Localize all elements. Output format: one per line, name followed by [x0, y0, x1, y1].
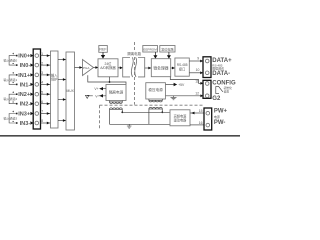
- input source symbol channel 3: [9, 114, 16, 124]
- svg-text:MUX: MUX: [67, 89, 75, 93]
- MCU box: [151, 59, 170, 77]
- analog rail: PGA/ADC bottom to isolated power: [88, 75, 126, 84]
- svg-text:DATA-: DATA-: [212, 71, 230, 77]
- IN labels: [18, 54, 31, 127]
- svg-text:3: 3: [41, 71, 43, 75]
- svg-text:PW-: PW-: [214, 120, 226, 126]
- wire ADC to isolation coupler: [118, 67, 123, 69]
- svg-text:IN2-: IN2-: [20, 102, 31, 108]
- right transformer primary winding: [149, 107, 162, 124]
- input terminal block (pins 1-8): [33, 49, 40, 129]
- svg-text:10: 10: [196, 68, 200, 72]
- svg-text:1: 1: [41, 52, 43, 56]
- bottom border rule: [0, 135, 240, 137]
- svg-text:A/D转换器: A/D转换器: [100, 65, 116, 70]
- ADC bottom stub: [109, 77, 111, 82]
- PW- wire from pin 16: [190, 124, 204, 126]
- EEPROM arrow to MCU: [154, 52, 156, 56]
- svg-text:V+: V+: [94, 87, 98, 91]
- svg-text:IN1+: IN1+: [18, 73, 31, 79]
- svg-text:9: 9: [197, 56, 199, 60]
- isolation barrier left vertical dashed segment: [99, 105, 101, 129]
- svg-text:EEPROM: EEPROM: [143, 48, 157, 52]
- svg-text:G2: G2: [212, 96, 221, 102]
- EEPROM box: [143, 46, 158, 53]
- svg-text:PGA: PGA: [83, 66, 89, 70]
- input source symbol channel 2: [9, 94, 16, 104]
- left transformer secondary winding: [110, 101, 123, 104]
- svg-text:PW+: PW+: [214, 108, 228, 114]
- svg-text:IN2+: IN2+: [18, 92, 31, 98]
- pin numbers 1-8: [41, 52, 43, 123]
- power driver box: [170, 110, 190, 126]
- svg-text:2: 2: [41, 61, 43, 65]
- wire MUX to PGA: [75, 67, 83, 69]
- wires terminal to protection box: [41, 56, 51, 123]
- primary bottom return wire: [110, 123, 171, 125]
- +5V output wire: [165, 84, 174, 86]
- CONFIG wire from MCU to pin 11: [170, 77, 203, 84]
- svg-text:12: 12: [195, 91, 199, 95]
- svg-text:IN3-: IN3-: [20, 121, 31, 127]
- REF box: [99, 46, 108, 53]
- svg-text:IN1-: IN1-: [20, 82, 31, 88]
- svg-text:输入通道0: 输入通道0: [4, 58, 18, 63]
- left transformer primary winding: [110, 108, 123, 125]
- svg-text:7: 7: [41, 110, 43, 114]
- primary top wire to driver box: [122, 111, 170, 113]
- reset circuit box: [160, 46, 175, 53]
- svg-text:保护: 保护: [51, 77, 57, 82]
- svg-text:电源: 电源: [214, 114, 220, 119]
- regulated power box (digital side): [146, 83, 166, 99]
- svg-text:15: 15: [199, 109, 203, 113]
- svg-text:数据通讯: 数据通讯: [212, 66, 224, 71]
- svg-text:隔离电源: 隔离电源: [109, 90, 124, 95]
- power terminal block (pins 15,16): [204, 108, 212, 130]
- svg-text:输入通道2: 输入通道2: [4, 96, 18, 101]
- svg-text:输入通道1: 输入通道1: [4, 77, 18, 82]
- wire PGA to ADC: [94, 67, 99, 69]
- ground wire to pin 12 (G2): [165, 95, 203, 97]
- svg-text:IN3+: IN3+: [18, 112, 31, 118]
- svg-text:+5V: +5V: [178, 83, 185, 87]
- svg-text:8: 8: [41, 119, 43, 123]
- isolation coupler box with S-curves: [123, 57, 145, 77]
- svg-text:输入通道3: 输入通道3: [4, 116, 18, 121]
- svg-text:接口: 接口: [179, 66, 185, 71]
- isolation circuit label: [126, 51, 142, 56]
- wire MCU to RS-485: [171, 67, 175, 69]
- reset arrow to MCU: [168, 52, 170, 56]
- V- output wire with analog ground: [87, 95, 106, 97]
- RS-485 interface box: [175, 58, 189, 76]
- PW+ wire from pin 15 to driver: [190, 112, 204, 114]
- svg-text:复位电路: 复位电路: [161, 47, 173, 52]
- svg-text:设置: 设置: [224, 89, 230, 93]
- ADC box: [98, 59, 118, 77]
- svg-text:4: 4: [41, 81, 43, 85]
- input protection box: [51, 51, 59, 128]
- PGA amplifier triangle: [83, 60, 94, 76]
- svg-text:驱动电路: 驱动电路: [174, 117, 188, 122]
- input source symbol channel 0: [9, 56, 16, 66]
- config jumper switch symbol: [216, 87, 223, 94]
- wire to pin 10: [189, 72, 203, 74]
- input source symbol channel 1: [9, 75, 16, 85]
- arrows into terminal block: [30, 54, 33, 125]
- DATA terminal block (pins 9,10): [203, 57, 211, 78]
- REF arrow into ADC: [102, 52, 104, 55]
- wire coupler to MCU: [145, 67, 152, 69]
- svg-text:IN0-: IN0-: [20, 63, 31, 69]
- svg-text:微处理器: 微处理器: [153, 65, 168, 70]
- svg-text:6: 6: [41, 100, 43, 104]
- svg-text:IN0+: IN0+: [18, 54, 31, 60]
- ground symbol on G2 wire: [171, 96, 177, 100]
- power ground symbol on bottom wire: [127, 124, 132, 128]
- isolation barrier horizontal dashed line: [100, 104, 204, 106]
- wire to pin 9: [189, 60, 203, 62]
- svg-text:16: 16: [199, 121, 203, 125]
- svg-text:11: 11: [195, 80, 199, 84]
- V+ output wire: [100, 88, 106, 90]
- wires protection to MUX: [58, 60, 66, 121]
- svg-text:REF: REF: [99, 48, 107, 52]
- svg-text:稳压电源: 稳压电源: [148, 87, 163, 92]
- svg-text:V-: V-: [95, 94, 98, 98]
- svg-text:5: 5: [41, 90, 43, 94]
- CONFIG terminal block (pins 11,12): [203, 80, 211, 98]
- svg-text:隔离电路: 隔离电路: [127, 51, 141, 56]
- MUX box: [66, 52, 75, 130]
- isolated power box (analog side): [106, 85, 126, 101]
- isolation barrier vertical dash-dot line: [134, 42, 136, 105]
- right transformer secondary winding: [149, 99, 162, 102]
